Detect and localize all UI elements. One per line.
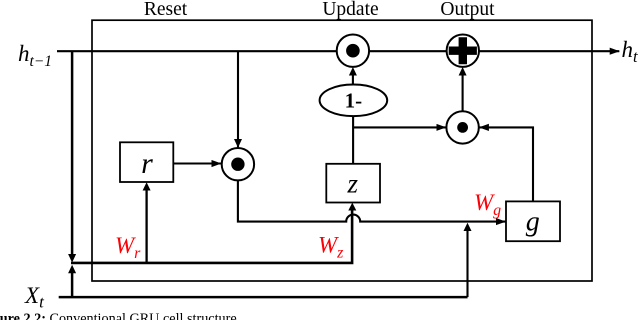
svg-text:Update: Update xyxy=(322,0,378,20)
r gate box xyxy=(120,142,173,182)
wire Wr feed vertical with arrow into r box xyxy=(145,189,147,263)
update multiply circle (dot operator) xyxy=(446,111,478,143)
svg-text:Figure 2.2: Conventional GRU c: Figure 2.2: Conventional GRU cell struct… xyxy=(0,311,237,320)
outer cell boundary rectangle xyxy=(92,20,592,281)
plus circle (adder) xyxy=(447,35,479,67)
g box xyxy=(506,201,560,241)
svg-text:z: z xyxy=(347,169,359,199)
top multiply circle (dot operator) xyxy=(337,35,369,67)
wire h(t-1) vertical drop at left xyxy=(71,51,74,254)
svg-text:Reset: Reset xyxy=(144,0,188,20)
arrow up into concat bus xyxy=(68,265,76,274)
wire z branch right into update multiply circle xyxy=(353,126,446,128)
wire h drop into reset multiply circle xyxy=(237,51,239,147)
svg-text:Wz: Wz xyxy=(318,233,344,262)
svg-text:g: g xyxy=(526,207,540,238)
wire 1- ellipse up into top multiply circle xyxy=(352,74,354,85)
wire concat bus horizontal then up into z box with arrow xyxy=(71,208,352,263)
wire X(t) vertical stub up to bus xyxy=(71,273,74,297)
wire Xt vertical up into g input line xyxy=(466,230,468,298)
wire update multiply circle up into plus circle xyxy=(462,74,464,111)
svg-text:Wr: Wr xyxy=(115,233,141,262)
svg-text:Wg: Wg xyxy=(474,190,501,219)
svg-text:ht−1: ht−1 xyxy=(18,41,52,70)
arrow into z box bottom xyxy=(348,203,356,211)
wire h(t-1) horizontal line xyxy=(57,50,619,52)
arrow down into concat bus xyxy=(68,254,76,263)
z box xyxy=(326,164,380,203)
wire r box to reset multiply circle xyxy=(173,162,221,164)
wire g output up then left into update multiply circle xyxy=(479,127,533,201)
1-minus ellipse xyxy=(320,85,388,117)
wire z output up to 1- ellipse xyxy=(352,116,354,164)
reset multiply circle (dot operator) xyxy=(222,148,254,180)
svg-text:r: r xyxy=(141,147,153,180)
svg-text:Output: Output xyxy=(440,0,495,20)
svg-text:ht: ht xyxy=(622,37,639,66)
svg-text:Xt: Xt xyxy=(24,283,45,312)
wire reset circle down then right to g box (with hop over Wz line) xyxy=(238,180,506,221)
wire Xt horizontal line xyxy=(59,296,468,299)
svg-text:1-: 1- xyxy=(345,89,363,113)
